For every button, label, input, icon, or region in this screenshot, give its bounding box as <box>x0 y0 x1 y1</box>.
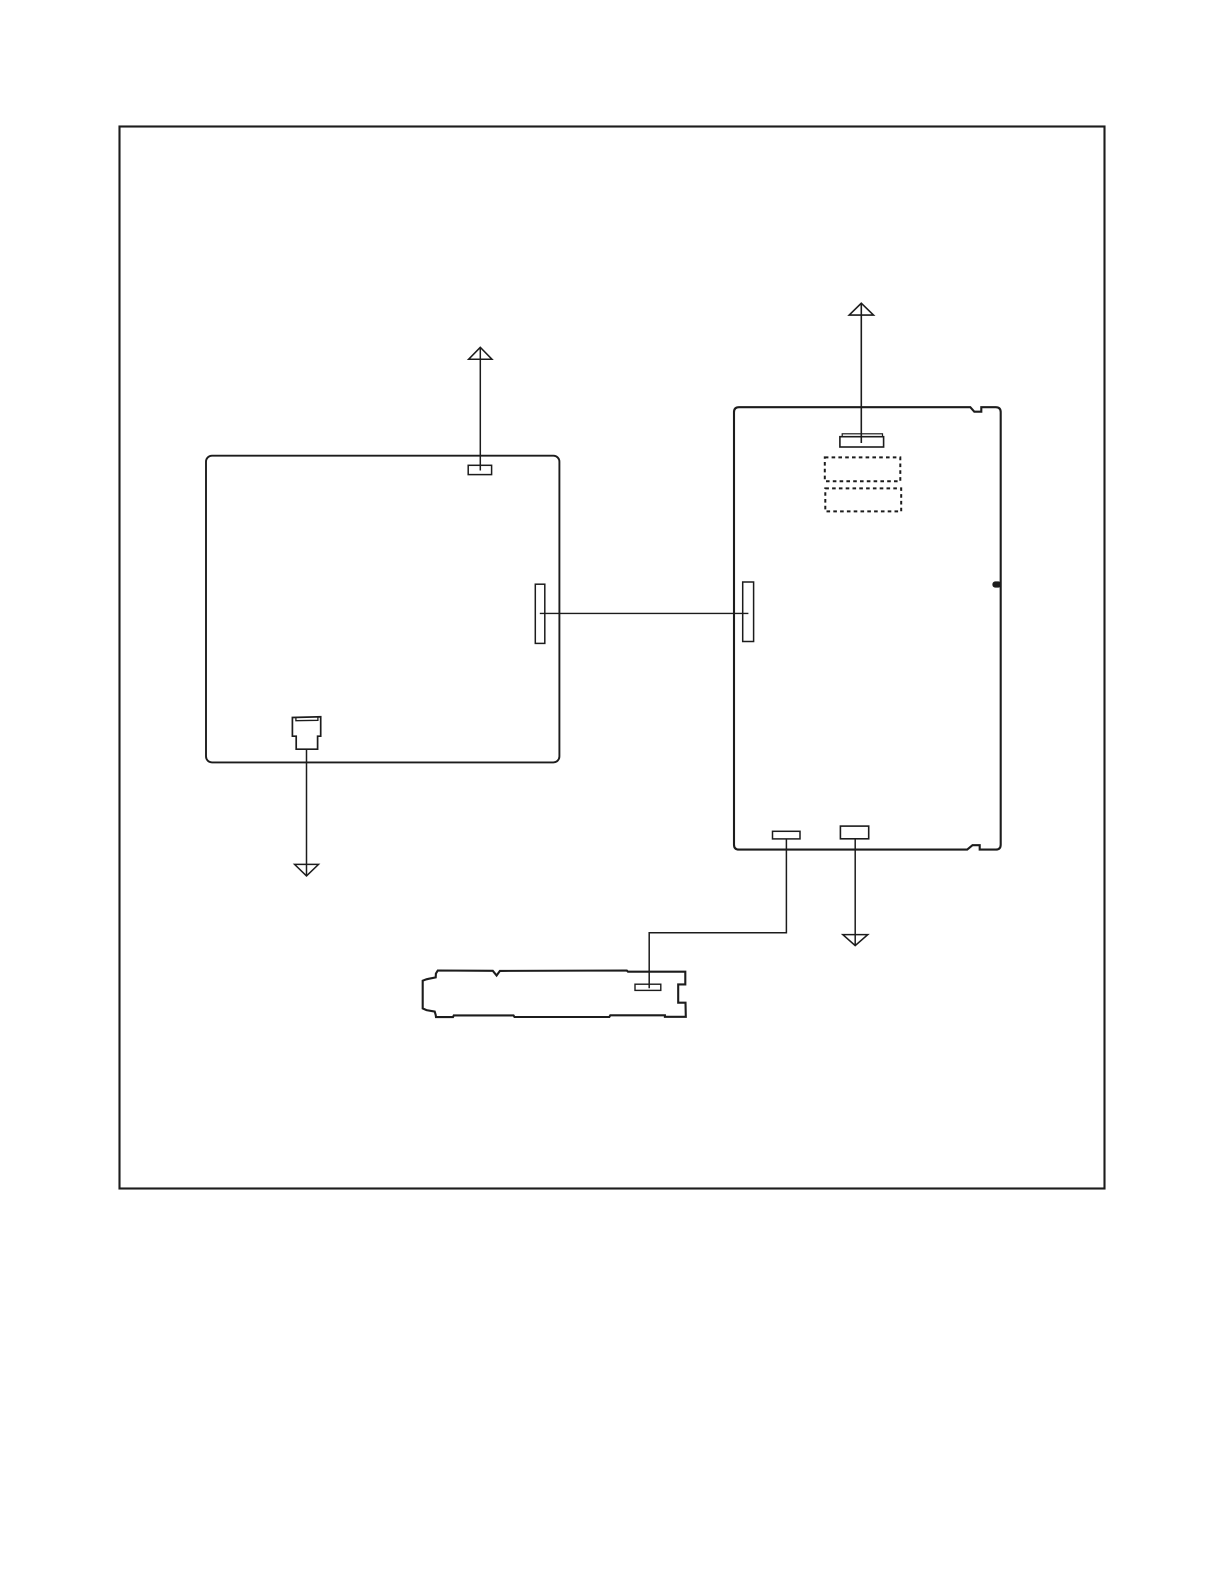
wire from right panel bottom-left connector to bottom board <box>649 839 786 988</box>
wire arrow stem from right panel bottom-right connector <box>854 839 856 945</box>
connector on right edge of left panel <box>535 584 545 643</box>
plug connector at bottom of left panel <box>292 717 320 749</box>
page border frame <box>120 127 1105 1189</box>
wire arrow stem from left panel top connector <box>479 348 481 471</box>
wire arrow stem from right panel top connector <box>860 304 862 443</box>
right panel board (main board) with edge notches <box>734 407 1001 849</box>
plug connector inner lip <box>296 717 318 721</box>
down arrow below left panel <box>295 864 319 876</box>
bottom board (drive unit) outline <box>423 971 686 1018</box>
dashed component outline upper <box>825 457 901 481</box>
down arrow below right panel <box>843 935 868 946</box>
connector on bottom board <box>635 984 661 990</box>
connector bottom-right of right panel <box>840 826 868 839</box>
wire arrow stem from plug down through panel edge <box>306 749 308 875</box>
left panel board (jack board) <box>206 456 559 763</box>
up arrow above left panel <box>469 347 492 359</box>
up arrow above right panel <box>849 303 873 315</box>
connector CN top of left panel <box>468 465 491 474</box>
connector body at top of right panel <box>840 437 884 447</box>
connector bottom-left of right panel <box>773 831 801 839</box>
connector on left edge of right panel <box>743 582 754 642</box>
connector lip at top of right panel <box>842 434 882 437</box>
dashed component outline lower <box>825 488 901 511</box>
tab mark on right edge of right panel <box>992 581 1001 587</box>
wire between left panel and right panel <box>540 612 749 614</box>
